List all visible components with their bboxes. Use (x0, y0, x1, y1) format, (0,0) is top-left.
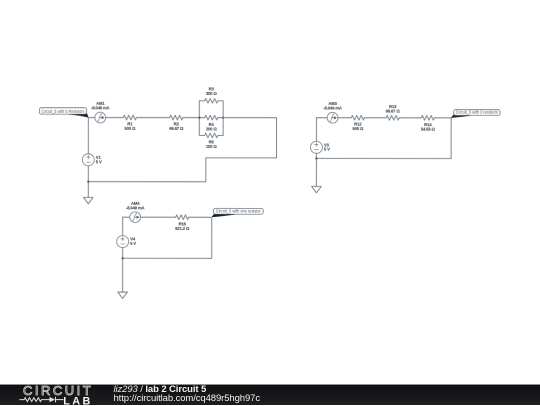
ground (circuit 3) (118, 292, 128, 298)
svg-text:66.67 Ω: 66.67 Ω (169, 126, 184, 131)
wire corner to ammeter AM4 (123, 216, 130, 218)
svg-text:Circuit_5 with one resistor: Circuit_5 with one resistor (216, 209, 262, 214)
wire parallel-block right rail (222, 101, 224, 136)
junction dot left rail (198, 117, 200, 119)
svg-text:66.67 Ω: 66.67 Ω (386, 108, 401, 113)
annotation Circuit_5 with one resistor (212, 208, 263, 217)
svg-text:500 Ω: 500 Ω (124, 126, 136, 131)
wire return path right side (88, 118, 276, 182)
resistor R1 (123, 115, 136, 120)
label V1 5 V (96, 155, 102, 164)
wire corner down to V3 (315, 118, 317, 142)
wire corner down to V4 (122, 217, 124, 235)
label V4 5 V (130, 237, 136, 246)
wire V3 bottom to ground (315, 153, 317, 186)
junction dot V4 bottom (122, 257, 124, 259)
wire R14 to right corner and return (316, 118, 451, 159)
svg-text:Circuit_5 with 3 resistors: Circuit_5 with 3 resistors (456, 110, 498, 115)
resistor R12 (351, 115, 364, 120)
junction dot V3 bottom (315, 157, 317, 159)
ammeter AM4 (130, 212, 141, 223)
logo wire with resistor and diode (19, 396, 63, 402)
label AM1 value (91, 101, 110, 111)
svg-text:5 V: 5 V (130, 241, 136, 246)
label R3 300 Ohm (206, 86, 218, 96)
annotation Circuit_5 with 3 resistors (451, 110, 500, 118)
svg-text:Circuit_5 with 5 Resistors: Circuit_5 with 5 Resistors (41, 109, 84, 114)
voltage source V3 (310, 141, 322, 153)
resistor R2 (170, 115, 183, 120)
label R12 500 Ohm (352, 122, 364, 132)
wire V1 bottom to ground (87, 166, 89, 198)
svg-text:621.2 Ω: 621.2 Ω (175, 226, 190, 231)
wire corner to ammeter AM3 (316, 117, 327, 119)
junction dot right rail (222, 117, 224, 119)
wire AM1 to R1 (106, 117, 124, 119)
ammeter AM3 (327, 112, 338, 123)
svg-text:5 V: 5 V (324, 147, 330, 152)
label R14 54.55 Ohm (421, 122, 436, 132)
svg-text:-8.049 mA: -8.049 mA (323, 106, 342, 111)
resistor R3 (199, 99, 223, 104)
label R2 66.67 Ohm (169, 122, 184, 132)
wire AM4 to R16 (141, 216, 176, 218)
resistor R4 (199, 115, 223, 120)
wire AM3 to R12 (338, 117, 351, 119)
label AM3 value (323, 101, 342, 111)
svg-text:54.55 Ω: 54.55 Ω (421, 127, 436, 132)
resistor R13 (386, 116, 399, 121)
junction dot V1 bottom (87, 181, 89, 183)
resistor R5 (199, 133, 223, 138)
label R1 500 Ohm (124, 121, 136, 131)
ground (circuit 2) (312, 186, 322, 192)
annotation Circuit_5 with 5 Resistors (39, 108, 88, 118)
label R5 100 Ohm (206, 140, 218, 150)
label AM4 value (126, 201, 145, 211)
svg-text:LAB: LAB (63, 395, 92, 406)
wire node A to ammeter AM1 left (88, 117, 95, 119)
wire R2 to parallel block (183, 117, 200, 119)
label R13 66.67 Ohm (386, 104, 401, 114)
voltage source V1 (82, 154, 94, 166)
voltage source V4 (117, 236, 129, 248)
svg-text:-8.049 mA: -8.049 mA (91, 106, 110, 111)
wire R16 to right corner and return (123, 217, 212, 258)
label R16 621.2 Ohm (175, 221, 190, 231)
svg-text:500 Ω: 500 Ω (352, 126, 364, 131)
svg-text:100 Ω: 100 Ω (206, 144, 218, 149)
wire R12 to R13 (364, 117, 386, 119)
wire node A down to V1 (87, 118, 89, 154)
svg-text:-8.049 mA: -8.049 mA (126, 205, 145, 210)
wire parallel-block left rail (198, 101, 200, 136)
ammeter AM1 (95, 112, 106, 123)
label V3 5 V (324, 142, 330, 151)
svg-text:5 V: 5 V (96, 159, 102, 164)
label R4 200 Ohm (206, 122, 218, 132)
wire R13 to R14 (399, 117, 421, 119)
wire R1 to R2 (136, 117, 169, 119)
svg-text:300 Ω: 300 Ω (206, 91, 218, 96)
svg-text:200 Ω: 200 Ω (206, 126, 218, 131)
wire V4 bottom to ground (122, 248, 124, 293)
ground (circuit 1) (83, 197, 93, 203)
resistor R14 (421, 116, 434, 121)
resistor R16 (176, 215, 189, 220)
